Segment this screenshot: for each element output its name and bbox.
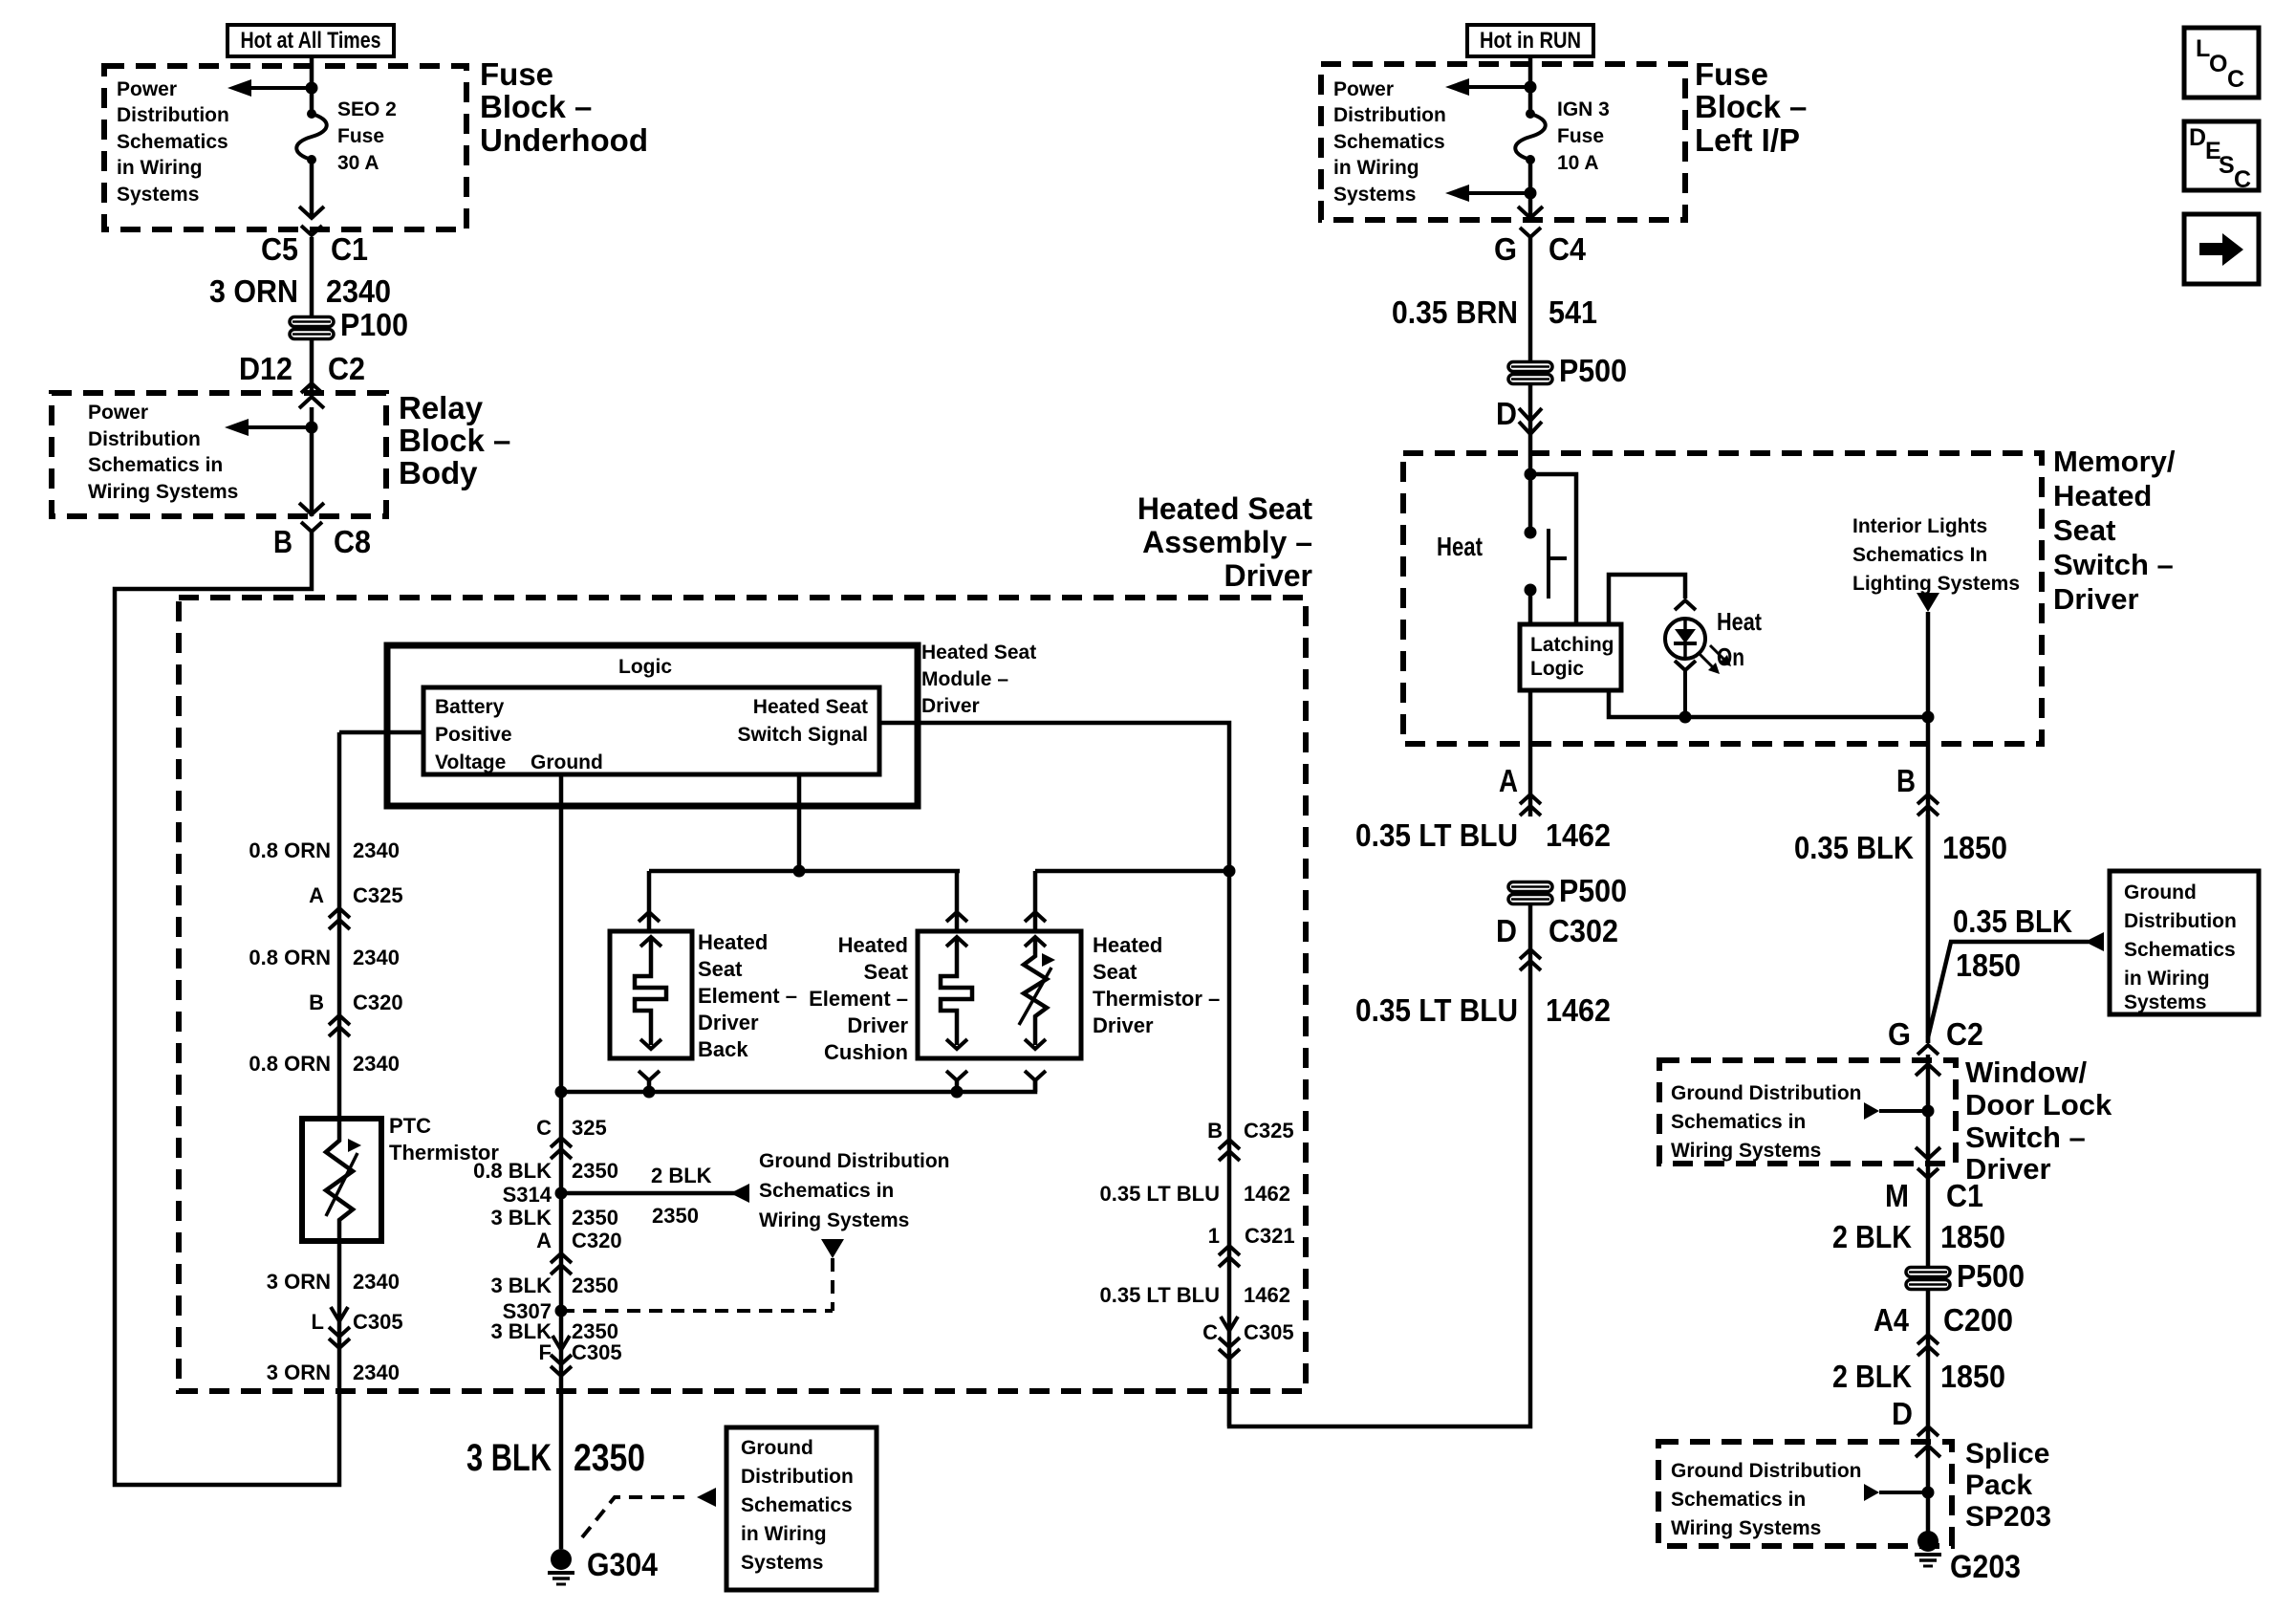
latching logic box	[1520, 624, 1621, 690]
svg-text:2350: 2350	[572, 1274, 618, 1297]
svg-text:Distribution: Distribution	[1333, 104, 1446, 126]
arrow out of window box	[1916, 1147, 1940, 1159]
svg-text:Heat: Heat	[1437, 532, 1483, 561]
svg-text:Block –: Block –	[399, 423, 510, 458]
svg-text:Seat: Seat	[1093, 960, 1137, 984]
svg-text:3 BLK: 3 BLK	[490, 1206, 552, 1230]
heated seat assembly driver dashed box	[179, 598, 1306, 1391]
svg-text:1462: 1462	[1244, 1283, 1290, 1307]
wire from fuse to C4	[1528, 160, 1533, 219]
wire from P500 to memory switch	[1528, 384, 1533, 533]
connector symbol A/C320	[551, 1253, 572, 1263]
down arrow at F C305	[552, 1336, 570, 1350]
svg-text:Schematics in: Schematics in	[1671, 1111, 1806, 1133]
svg-text:2340: 2340	[353, 1361, 400, 1384]
svg-text:10 A: 10 A	[1557, 152, 1599, 174]
svg-text:C302: C302	[1549, 913, 1618, 948]
junction node window box	[1922, 1105, 1935, 1118]
wire battery positive down left side	[337, 732, 342, 1119]
svg-text:Heated Seat: Heated Seat	[921, 642, 1036, 664]
svg-text:C8: C8	[334, 524, 371, 559]
connector symbol M/C1	[1917, 1168, 1939, 1178]
legend box LOC	[2184, 28, 2259, 98]
svg-text:C321: C321	[1245, 1224, 1295, 1248]
svg-text:Systems: Systems	[2124, 991, 2206, 1013]
svg-text:3 ORN: 3 ORN	[267, 1361, 331, 1384]
wire element return rail	[561, 1078, 1035, 1092]
svg-text:C320: C320	[353, 991, 403, 1014]
svg-text:SP203: SP203	[1965, 1501, 2051, 1533]
svg-text:SEO 2: SEO 2	[337, 98, 397, 120]
wire from PTC to C305	[337, 1241, 342, 1358]
svg-text:Cushion: Cushion	[824, 1040, 908, 1064]
svg-text:Heated: Heated	[1093, 933, 1162, 957]
svg-text:P500: P500	[1559, 873, 1627, 908]
down arrow at C C305	[1221, 1317, 1238, 1331]
svg-text:2340: 2340	[353, 838, 400, 862]
svg-text:Heated: Heated	[838, 933, 908, 957]
connector symbol C5/C1	[301, 226, 322, 235]
connector symbol A4/C200	[1917, 1335, 1939, 1344]
connector symbol D (splice pack)	[1917, 1426, 1939, 1436]
LED cathode bar	[1674, 642, 1697, 645]
svg-text:Power: Power	[117, 78, 177, 100]
heated seat thermistor symbol	[1025, 937, 1046, 947]
svg-text:Switch Signal: Switch Signal	[737, 724, 868, 746]
svg-text:in Wiring: in Wiring	[117, 157, 203, 179]
svg-text:in Wiring: in Wiring	[2124, 968, 2210, 990]
junction node on battery feed	[306, 82, 318, 95]
junction node return rail cushion element	[951, 1086, 964, 1099]
svg-text:3 ORN: 3 ORN	[267, 1270, 331, 1294]
ref triangle down to S307 path	[821, 1239, 844, 1258]
svg-text:C305: C305	[1244, 1320, 1294, 1344]
arrow to power distribution schematics (relay)	[225, 419, 249, 436]
svg-text:Switch –: Switch –	[1965, 1121, 2086, 1154]
wire LED branch top	[1609, 575, 1685, 622]
svg-text:Systems: Systems	[741, 1552, 823, 1574]
connector above back element	[639, 912, 660, 922]
svg-text:C325: C325	[353, 883, 403, 907]
connector symbol C/325	[551, 1138, 572, 1147]
LED connector top	[1675, 600, 1696, 610]
connector above cushion element	[946, 912, 967, 922]
svg-text:C: C	[2227, 66, 2244, 93]
svg-text:in Wiring: in Wiring	[1333, 157, 1419, 179]
svg-text:G304: G304	[587, 1547, 658, 1583]
svg-text:Module –: Module –	[921, 668, 1008, 690]
svg-text:P500: P500	[1957, 1258, 2025, 1294]
svg-text:Fuse: Fuse	[1557, 125, 1604, 147]
svg-text:L: L	[2196, 35, 2210, 62]
svg-text:Driver: Driver	[698, 1011, 759, 1034]
svg-text:Distribution: Distribution	[117, 104, 229, 126]
svg-text:Ground Distribution: Ground Distribution	[1671, 1082, 1861, 1104]
wire branch to latching logic	[1530, 474, 1576, 624]
svg-text:C200: C200	[1943, 1302, 2013, 1338]
svg-text:2350: 2350	[572, 1206, 618, 1230]
connector symbol 1/C321	[1219, 1246, 1240, 1255]
svg-text:C: C	[536, 1116, 552, 1140]
connector below cushion element	[946, 1071, 967, 1080]
svg-text:Block –: Block –	[480, 89, 592, 124]
svg-text:Fuse: Fuse	[480, 56, 553, 92]
svg-text:0.8 ORN: 0.8 ORN	[249, 946, 331, 969]
junction node return rail back element	[643, 1086, 656, 1099]
svg-text:325: 325	[572, 1116, 607, 1140]
wire through relay block	[310, 407, 314, 516]
svg-text:A: A	[1499, 763, 1518, 798]
ground distribution schematics box (right)	[2110, 871, 2259, 1014]
svg-text:Assembly –: Assembly –	[1142, 525, 1312, 559]
svg-text:in Wiring: in Wiring	[741, 1523, 827, 1545]
svg-text:3 ORN: 3 ORN	[209, 273, 298, 309]
down arrows at D	[1519, 408, 1542, 421]
svg-text:Left I/P: Left I/P	[1695, 122, 1800, 158]
svg-text:P100: P100	[340, 307, 408, 342]
arrow from ground distribution into window box	[1864, 1102, 1879, 1120]
ground G203	[1917, 1531, 1939, 1552]
arrow into splice pack	[1916, 1446, 1940, 1457]
svg-text:Heated: Heated	[2053, 479, 2152, 512]
cushion element heater symbol	[946, 937, 967, 947]
svg-text:Memory/: Memory/	[2053, 445, 2176, 478]
grommet P100	[290, 317, 334, 327]
svg-text:0.35 BLK: 0.35 BLK	[1953, 903, 2072, 939]
svg-text:C: C	[2234, 166, 2251, 193]
wire from Hot in RUN into fuse block	[1528, 56, 1533, 114]
svg-text:Pack: Pack	[1965, 1469, 2032, 1501]
relay block body dashed box	[52, 393, 386, 516]
svg-text:Schematics: Schematics	[1333, 131, 1445, 153]
svg-text:Driver: Driver	[2053, 582, 2139, 616]
arrow out of left IP fuse block	[1518, 207, 1543, 218]
svg-text:Schematics: Schematics	[2124, 939, 2236, 961]
svg-text:C4: C4	[1549, 231, 1587, 267]
svg-text:Seat: Seat	[698, 957, 743, 981]
svg-text:O: O	[2209, 51, 2227, 77]
svg-text:D: D	[1496, 396, 1517, 431]
svg-text:Ground: Ground	[2124, 882, 2197, 903]
svg-text:Heat: Heat	[1717, 607, 1762, 636]
svg-text:2350: 2350	[574, 1437, 645, 1479]
svg-text:Distribution: Distribution	[2124, 910, 2237, 932]
svg-text:2350: 2350	[652, 1204, 699, 1228]
svg-text:Wiring Systems: Wiring Systems	[1671, 1517, 1821, 1539]
svg-text:Heated Seat: Heated Seat	[1137, 491, 1313, 526]
junction node at thermistor rail	[1224, 865, 1236, 878]
wire 2 BLK 2350 branch from S314	[561, 1191, 736, 1196]
arrow to power distribution schematics	[227, 79, 251, 97]
svg-text:Driver: Driver	[847, 1013, 908, 1037]
connector above thermistor	[1025, 912, 1046, 922]
svg-text:1: 1	[1208, 1224, 1220, 1248]
PTC thermistor zigzag symbol	[326, 1119, 353, 1241]
arrow to power distribution schematics (IGN top)	[1445, 78, 1469, 96]
svg-text:0.35 LT BLU: 0.35 LT BLU	[1355, 992, 1518, 1028]
svg-text:3 BLK: 3 BLK	[490, 1274, 552, 1297]
ref triangle interior lights	[1917, 593, 1939, 612]
svg-text:C305: C305	[353, 1310, 403, 1334]
junction node on ignition feed	[1525, 81, 1537, 94]
svg-text:A: A	[309, 883, 324, 907]
svg-text:Battery: Battery	[435, 696, 505, 718]
svg-text:Relay: Relay	[399, 390, 484, 425]
heat switch contacts	[1525, 527, 1537, 539]
connector symbol G/C2	[1917, 1045, 1939, 1055]
svg-text:1850: 1850	[1940, 1219, 2005, 1254]
svg-text:0.35 BLK: 0.35 BLK	[1794, 830, 1914, 865]
svg-text:2350: 2350	[572, 1159, 618, 1183]
wire battery positive voltage feed	[339, 730, 423, 735]
svg-text:C2: C2	[1946, 1016, 1983, 1052]
svg-text:Voltage: Voltage	[435, 751, 506, 773]
svg-text:S: S	[2219, 152, 2235, 179]
svg-text:L: L	[312, 1310, 324, 1334]
connector symbol B	[1917, 795, 1939, 804]
connector symbol A	[1520, 795, 1541, 804]
grommet P500 (LT BLU)	[1508, 882, 1552, 892]
svg-text:M: M	[1885, 1178, 1909, 1213]
svg-text:A4: A4	[1874, 1302, 1910, 1338]
svg-text:Body: Body	[399, 455, 478, 490]
svg-text:C1: C1	[1946, 1178, 1983, 1213]
svg-text:0.35 BRN: 0.35 BRN	[1392, 294, 1518, 330]
svg-text:2340: 2340	[326, 273, 391, 309]
junction node switch signal	[793, 865, 806, 878]
heated seat module logic outer box	[387, 645, 918, 806]
svg-text:Systems: Systems	[117, 184, 199, 206]
LED light arrows	[1699, 653, 1714, 668]
svg-text:1850: 1850	[1940, 1359, 2005, 1394]
ground G304	[551, 1549, 572, 1570]
svg-text:Wiring Systems: Wiring Systems	[1671, 1140, 1821, 1162]
svg-text:Element –: Element –	[809, 987, 908, 1011]
connector symbol D/C302	[1520, 949, 1541, 959]
svg-text:Distribution: Distribution	[88, 428, 201, 450]
connector symbol C/C305	[1219, 1338, 1240, 1347]
LED indicator circle	[1665, 619, 1705, 659]
svg-text:C5: C5	[261, 231, 298, 267]
connector symbol A/C325	[329, 908, 350, 918]
svg-text:2 BLK: 2 BLK	[1832, 1219, 1912, 1254]
svg-text:Door Lock: Door Lock	[1965, 1088, 2112, 1121]
svg-text:0.35 LT BLU: 0.35 LT BLU	[1099, 1182, 1220, 1206]
svg-text:G: G	[1888, 1016, 1911, 1052]
LED anode triangle	[1683, 619, 1687, 631]
heated seat element driver back box	[610, 931, 692, 1058]
svg-text:Latching: Latching	[1530, 634, 1614, 656]
grommet P500 (BLK)	[1906, 1268, 1950, 1277]
arrow from ground distribution into splice pack	[1864, 1484, 1879, 1501]
junction node below fuse	[1525, 187, 1537, 200]
junction node splice pack	[1922, 1487, 1935, 1499]
svg-text:PTC: PTC	[389, 1114, 431, 1138]
svg-text:Seat: Seat	[2053, 513, 2115, 547]
svg-text:Ground: Ground	[531, 751, 603, 773]
connector symbol B/C325	[1219, 1140, 1240, 1149]
wire switch to latching logic	[1528, 590, 1533, 624]
svg-text:1462: 1462	[1546, 992, 1611, 1028]
svg-text:Seat: Seat	[864, 960, 909, 984]
svg-text:On: On	[1717, 642, 1744, 671]
svg-text:2 BLK: 2 BLK	[1832, 1359, 1912, 1394]
PTC thermistor box	[302, 1119, 381, 1241]
wire from P100 to relay block	[310, 339, 314, 394]
svg-text:0.35 LT BLU: 0.35 LT BLU	[1355, 817, 1518, 853]
fuse SEO 2 30 A	[307, 109, 316, 119]
wire ground from module down	[559, 774, 564, 1092]
svg-text:Systems: Systems	[1333, 184, 1416, 206]
connector symbol L/C305	[329, 1327, 350, 1337]
svg-text:Schematics: Schematics	[741, 1494, 853, 1516]
svg-text:541: 541	[1549, 294, 1597, 330]
wire 0.35 BRN 541	[1528, 237, 1533, 362]
svg-text:D: D	[1496, 913, 1517, 948]
svg-text:B: B	[1207, 1119, 1223, 1143]
svg-text:Window/: Window/	[1965, 1056, 2088, 1089]
svg-text:0.8 ORN: 0.8 ORN	[249, 1052, 331, 1076]
heat switch blade	[1547, 529, 1550, 599]
fuse IGN 3 10 A	[1526, 109, 1535, 119]
connector symbol B/C320	[329, 1015, 350, 1025]
svg-text:Block –: Block –	[1695, 89, 1807, 124]
arrow out of relay block	[299, 503, 324, 514]
svg-text:0.8 ORN: 0.8 ORN	[249, 838, 331, 862]
svg-text:S314: S314	[503, 1183, 552, 1207]
svg-text:Heated Seat: Heated Seat	[753, 696, 868, 718]
wire element feed top rail left	[649, 869, 960, 874]
svg-text:F: F	[539, 1340, 552, 1364]
power label box: Hot in RUN	[1467, 25, 1593, 56]
svg-text:1462: 1462	[1244, 1182, 1290, 1206]
svg-text:C325: C325	[1244, 1119, 1294, 1143]
wire LED branch bottom	[1609, 692, 1928, 717]
svg-text:C: C	[1202, 1320, 1218, 1344]
svg-text:C320: C320	[572, 1229, 622, 1252]
svg-text:Lighting Systems: Lighting Systems	[1852, 573, 2020, 595]
svg-text:2 BLK: 2 BLK	[651, 1164, 712, 1187]
junction node LED return	[1679, 711, 1692, 724]
junction node at switch top	[1525, 468, 1537, 481]
svg-text:Logic: Logic	[618, 656, 672, 678]
svg-text:Ground Distribution: Ground Distribution	[1671, 1460, 1861, 1482]
memory heated seat switch dashed box	[1403, 453, 2042, 744]
connector symbol F/C305	[551, 1355, 572, 1364]
junction node return rail at ground wire	[555, 1086, 568, 1099]
svg-text:C2: C2	[328, 351, 365, 386]
splice pack SP203 dashed box	[1658, 1442, 1952, 1546]
dashed ref wire from G304	[582, 1497, 684, 1537]
svg-text:Hot in RUN: Hot in RUN	[1480, 28, 1581, 54]
svg-text:Splice: Splice	[1965, 1438, 2049, 1469]
svg-text:Logic: Logic	[1530, 658, 1584, 680]
wire from C305 to memory switch A	[1229, 904, 1530, 1426]
svg-text:C305: C305	[572, 1340, 622, 1364]
svg-text:G: G	[1494, 231, 1517, 267]
svg-text:Fuse: Fuse	[337, 125, 384, 147]
svg-text:Distribution: Distribution	[741, 1466, 854, 1488]
svg-text:Element –: Element –	[698, 984, 797, 1008]
svg-text:Schematics In: Schematics In	[1852, 544, 1987, 566]
svg-text:Wiring Systems: Wiring Systems	[759, 1209, 909, 1231]
wire from Hot at All Times into fuse block	[310, 56, 314, 114]
power label box: Hot at All Times	[227, 25, 394, 56]
svg-text:A: A	[536, 1229, 552, 1252]
connector symbol G/C4	[1520, 228, 1541, 237]
wire through window box	[1926, 1055, 1931, 1268]
wire latching logic down to A	[1528, 690, 1533, 816]
wire interior lights to B junction	[1926, 612, 1931, 717]
svg-text:Driver: Driver	[921, 695, 980, 717]
svg-text:1850: 1850	[1956, 947, 2021, 983]
svg-text:Hot at All Times: Hot at All Times	[241, 28, 381, 54]
svg-text:0.35 LT BLU: 0.35 LT BLU	[1099, 1283, 1220, 1307]
svg-text:B: B	[1896, 763, 1916, 798]
wire element feed to thermistor rail	[1035, 869, 1229, 874]
junction node in relay block	[306, 422, 318, 434]
svg-text:1462: 1462	[1546, 817, 1611, 853]
svg-text:P500: P500	[1559, 353, 1627, 388]
svg-text:Thermistor –: Thermistor –	[1093, 987, 1220, 1011]
fuse block underhood dashed box	[104, 66, 466, 229]
wire branch 0.35 BLK 1850 to ground distribution	[1928, 942, 2089, 1037]
PTC thermistor arrow	[326, 1153, 357, 1216]
svg-text:G203: G203	[1950, 1549, 2021, 1585]
arrow to power distribution schematics (IGN bottom)	[1445, 185, 1469, 202]
LED connector bottom	[1675, 661, 1696, 670]
wire B down to G C2	[1926, 815, 1931, 1043]
wire from fuse to connector C1	[310, 160, 314, 219]
connector below thermistor	[1025, 1071, 1046, 1080]
svg-text:IGN 3: IGN 3	[1557, 98, 1610, 120]
svg-text:Underhood: Underhood	[480, 122, 648, 158]
svg-text:Driver: Driver	[1093, 1013, 1154, 1037]
legend box DESC	[2184, 121, 2259, 190]
svg-text:Schematics in: Schematics in	[1671, 1489, 1806, 1511]
svg-text:Power: Power	[88, 402, 148, 424]
down arrow at L C305	[331, 1307, 348, 1321]
svg-text:Schematics in: Schematics in	[759, 1180, 894, 1202]
heated seat module inner pin box	[423, 687, 879, 774]
svg-text:Driver: Driver	[1224, 558, 1313, 593]
svg-text:Power: Power	[1333, 78, 1394, 100]
svg-text:B: B	[273, 524, 292, 559]
svg-text:Back: Back	[698, 1037, 748, 1061]
svg-text:Fuse: Fuse	[1695, 56, 1768, 92]
window door lock switch dashed box	[1659, 1060, 1956, 1164]
svg-text:Ground: Ground	[741, 1437, 813, 1459]
connector symbol B/C8	[301, 522, 322, 532]
wire to splice pack	[1926, 1289, 1931, 1541]
svg-text:2340: 2340	[353, 1052, 400, 1076]
back element heater symbol	[640, 937, 661, 947]
svg-text:Positive: Positive	[435, 724, 512, 746]
svg-text:30 A: 30 A	[337, 152, 379, 174]
svg-text:D12: D12	[239, 351, 292, 386]
svg-text:Wiring Systems: Wiring Systems	[88, 481, 238, 503]
svg-text:2340: 2340	[353, 1270, 400, 1294]
svg-text:3 BLK: 3 BLK	[466, 1437, 552, 1479]
svg-text:Schematics in: Schematics in	[88, 454, 223, 476]
svg-text:D: D	[1892, 1396, 1913, 1431]
wire from B C8 down-left to heated seat assembly battery feed	[115, 532, 339, 1485]
grommet P500 (BRN)	[1508, 362, 1552, 372]
wire B output inside box	[1926, 717, 1931, 1043]
wire 3 ORN 2340 to P100	[310, 237, 314, 317]
svg-text:2340: 2340	[353, 946, 400, 969]
fuse block left IP dashed box	[1321, 64, 1685, 220]
